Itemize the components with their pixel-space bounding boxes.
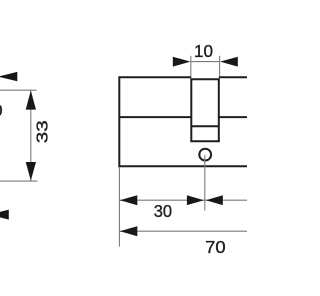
cylinder body middle line [119, 116, 191, 118]
cam slot bottom edge [190, 140, 220, 142]
svg-text:30: 30 [154, 201, 172, 221]
arrowhead (cropped left-view lower dimension, tip beyond edge) [0, 210, 9, 220]
cylinder body top edge [119, 76, 191, 78]
fixing screw hole circle [199, 149, 211, 161]
dimension line 10 [191, 61, 220, 63]
cam slot left vertical [190, 79, 192, 141]
arrowhead left (30 dim) [120, 195, 138, 205]
dimension line 33 (vertical) [30, 91, 32, 181]
arrowhead up (33 dim) [26, 91, 36, 110]
dimension line 30 / 40 [120, 199, 247, 201]
arrowhead right (30 dim) [187, 195, 204, 205]
extension line for 10 dim (left) [190, 56, 192, 77]
arrowhead left-pointing (10 dim, outside right) [220, 57, 238, 67]
cylinder body bottom edge [119, 165, 247, 167]
arrowhead left (40 dim, cropped) [206, 195, 223, 205]
svg-text:33: 33 [33, 120, 51, 143]
cylinder body left edge [118, 76, 120, 167]
leader line from screw hole down [204, 155, 206, 211]
cam slot right vertical [218, 79, 220, 141]
arrowhead left (70 dim) [120, 226, 138, 236]
cam slot inner horizontal [191, 125, 219, 127]
extension line below body left edge [118, 167, 120, 247]
extension line (left view, bottom of 33 dim) [0, 180, 38, 182]
arrowhead right-pointing (10 dim, outside left) [173, 57, 191, 67]
svg-text:70: 70 [205, 237, 226, 257]
arrowhead down (33 dim) [26, 162, 36, 181]
extension line for 10 dim (right) [219, 56, 221, 77]
extension line (left view, top of 33 dim) [0, 89, 37, 91]
arrowhead (right arrow of cropped left-view top dimension) [0, 72, 17, 81]
svg-text:10: 10 [194, 41, 213, 61]
cam slot top edge [190, 78, 220, 80]
svg-text:30: 30 [0, 101, 3, 120]
dimension line 70 [120, 230, 247, 232]
